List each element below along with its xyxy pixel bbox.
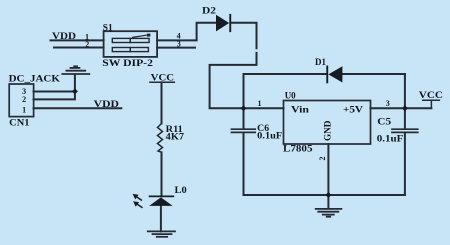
svg-text:SW DIP-2: SW DIP-2 [102,58,153,68]
svg-text:DC_JACK: DC_JACK [9,74,60,84]
svg-text:3: 3 [177,40,181,49]
svg-text:1: 1 [22,105,26,114]
svg-text:0.1uF: 0.1uF [257,131,283,141]
svg-text:Vin: Vin [291,104,309,114]
svg-text:VCC: VCC [419,90,443,100]
svg-text:L0: L0 [175,185,188,195]
svg-text:2: 2 [22,95,26,104]
svg-text:GND: GND [323,120,333,141]
svg-text:S1: S1 [103,23,113,33]
svg-text:U0: U0 [285,91,296,101]
svg-text:VCC: VCC [151,72,174,82]
svg-text:D2: D2 [202,6,217,16]
svg-text:D1: D1 [315,57,326,67]
svg-text:2: 2 [85,40,89,49]
svg-text:L7805: L7805 [283,143,313,153]
svg-text:3: 3 [386,99,390,108]
svg-text:VDD: VDD [52,31,77,41]
svg-text:+5V: +5V [343,104,364,114]
svg-text:4K7: 4K7 [166,131,185,141]
svg-text:CN1: CN1 [9,118,30,128]
svg-text:VDD: VDD [94,99,120,109]
svg-text:0.1uF: 0.1uF [377,134,404,144]
svg-text:2: 2 [318,157,327,161]
svg-text:1: 1 [258,99,262,108]
svg-text:C5: C5 [377,116,391,126]
